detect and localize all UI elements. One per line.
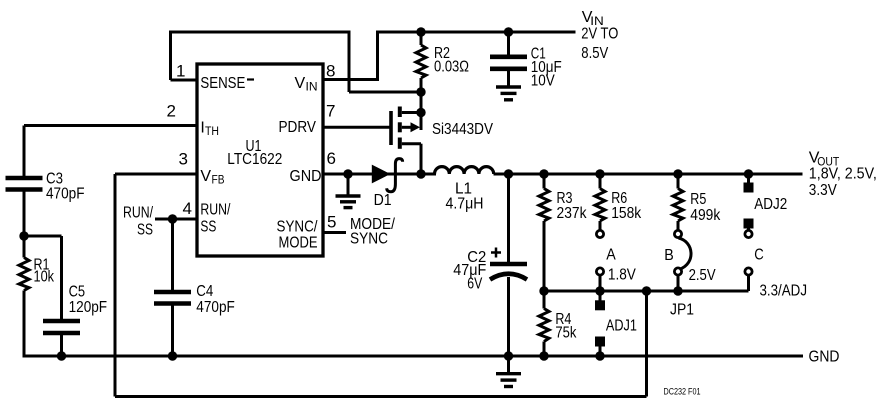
svg-text:GND: GND xyxy=(809,349,840,366)
svg-text:ADJ2: ADJ2 xyxy=(754,196,787,213)
svg-text:158k: 158k xyxy=(611,205,642,222)
svg-text:1,8V, 2.5V,: 1,8V, 2.5V, xyxy=(809,165,877,182)
svg-text:A: A xyxy=(606,247,616,264)
svg-text:SS: SS xyxy=(137,222,153,239)
svg-text:470pF: 470pF xyxy=(196,299,235,316)
svg-text:V: V xyxy=(295,75,306,92)
svg-text:ADJ1: ADJ1 xyxy=(606,318,637,335)
svg-text:SS: SS xyxy=(200,219,216,236)
svg-text:3: 3 xyxy=(179,150,188,169)
svg-text:RUN/: RUN/ xyxy=(123,205,153,222)
svg-text:LTC1622: LTC1622 xyxy=(227,151,282,168)
svg-text:10k: 10k xyxy=(34,269,55,286)
svg-text:8.5V: 8.5V xyxy=(581,45,608,62)
svg-text:6: 6 xyxy=(327,149,336,168)
svg-text:3.3V: 3.3V xyxy=(809,182,837,199)
svg-text:SENSE: SENSE xyxy=(200,75,245,92)
svg-text:470pF: 470pF xyxy=(46,185,85,202)
svg-text:120pF: 120pF xyxy=(69,299,108,316)
svg-text:C: C xyxy=(754,247,764,264)
svg-text:499k: 499k xyxy=(690,207,721,224)
svg-text:75k: 75k xyxy=(555,324,577,341)
svg-text:1.8V: 1.8V xyxy=(608,266,636,283)
svg-text:5: 5 xyxy=(327,213,336,232)
svg-text:B: B xyxy=(664,247,674,264)
svg-text:R5: R5 xyxy=(690,191,706,208)
svg-text:1: 1 xyxy=(176,61,185,80)
svg-text:TH: TH xyxy=(205,126,219,138)
svg-text:V: V xyxy=(200,168,211,185)
svg-text:JP1: JP1 xyxy=(670,301,694,318)
svg-text:PDRV: PDRV xyxy=(279,119,317,136)
svg-text:Si3443DV: Si3443DV xyxy=(432,121,493,138)
svg-text:C4: C4 xyxy=(196,283,213,300)
svg-text:FB: FB xyxy=(212,175,225,187)
svg-text:0.03Ω: 0.03Ω xyxy=(434,59,469,76)
svg-text:SYNC: SYNC xyxy=(350,231,388,248)
svg-text:DC232 F01: DC232 F01 xyxy=(664,387,701,397)
svg-text:GND: GND xyxy=(290,168,322,185)
svg-text:237k: 237k xyxy=(557,205,588,222)
svg-text:7: 7 xyxy=(326,101,335,120)
svg-text:D1: D1 xyxy=(374,192,392,209)
svg-text:8: 8 xyxy=(326,61,335,80)
svg-text:2V TO: 2V TO xyxy=(581,26,618,43)
svg-text:MODE: MODE xyxy=(279,235,318,252)
svg-text:4: 4 xyxy=(183,199,192,218)
svg-text:10V: 10V xyxy=(531,73,555,90)
svg-text:RUN/: RUN/ xyxy=(200,202,230,219)
svg-text:6V: 6V xyxy=(467,276,482,293)
svg-text:2.5V: 2.5V xyxy=(689,267,716,284)
svg-text:4.7μH: 4.7μH xyxy=(446,196,484,213)
svg-text:SYNC/: SYNC/ xyxy=(277,219,318,236)
svg-text:2: 2 xyxy=(167,101,176,120)
svg-text:3.3/ADJ: 3.3/ADJ xyxy=(760,283,808,300)
svg-text:IN: IN xyxy=(306,82,318,94)
